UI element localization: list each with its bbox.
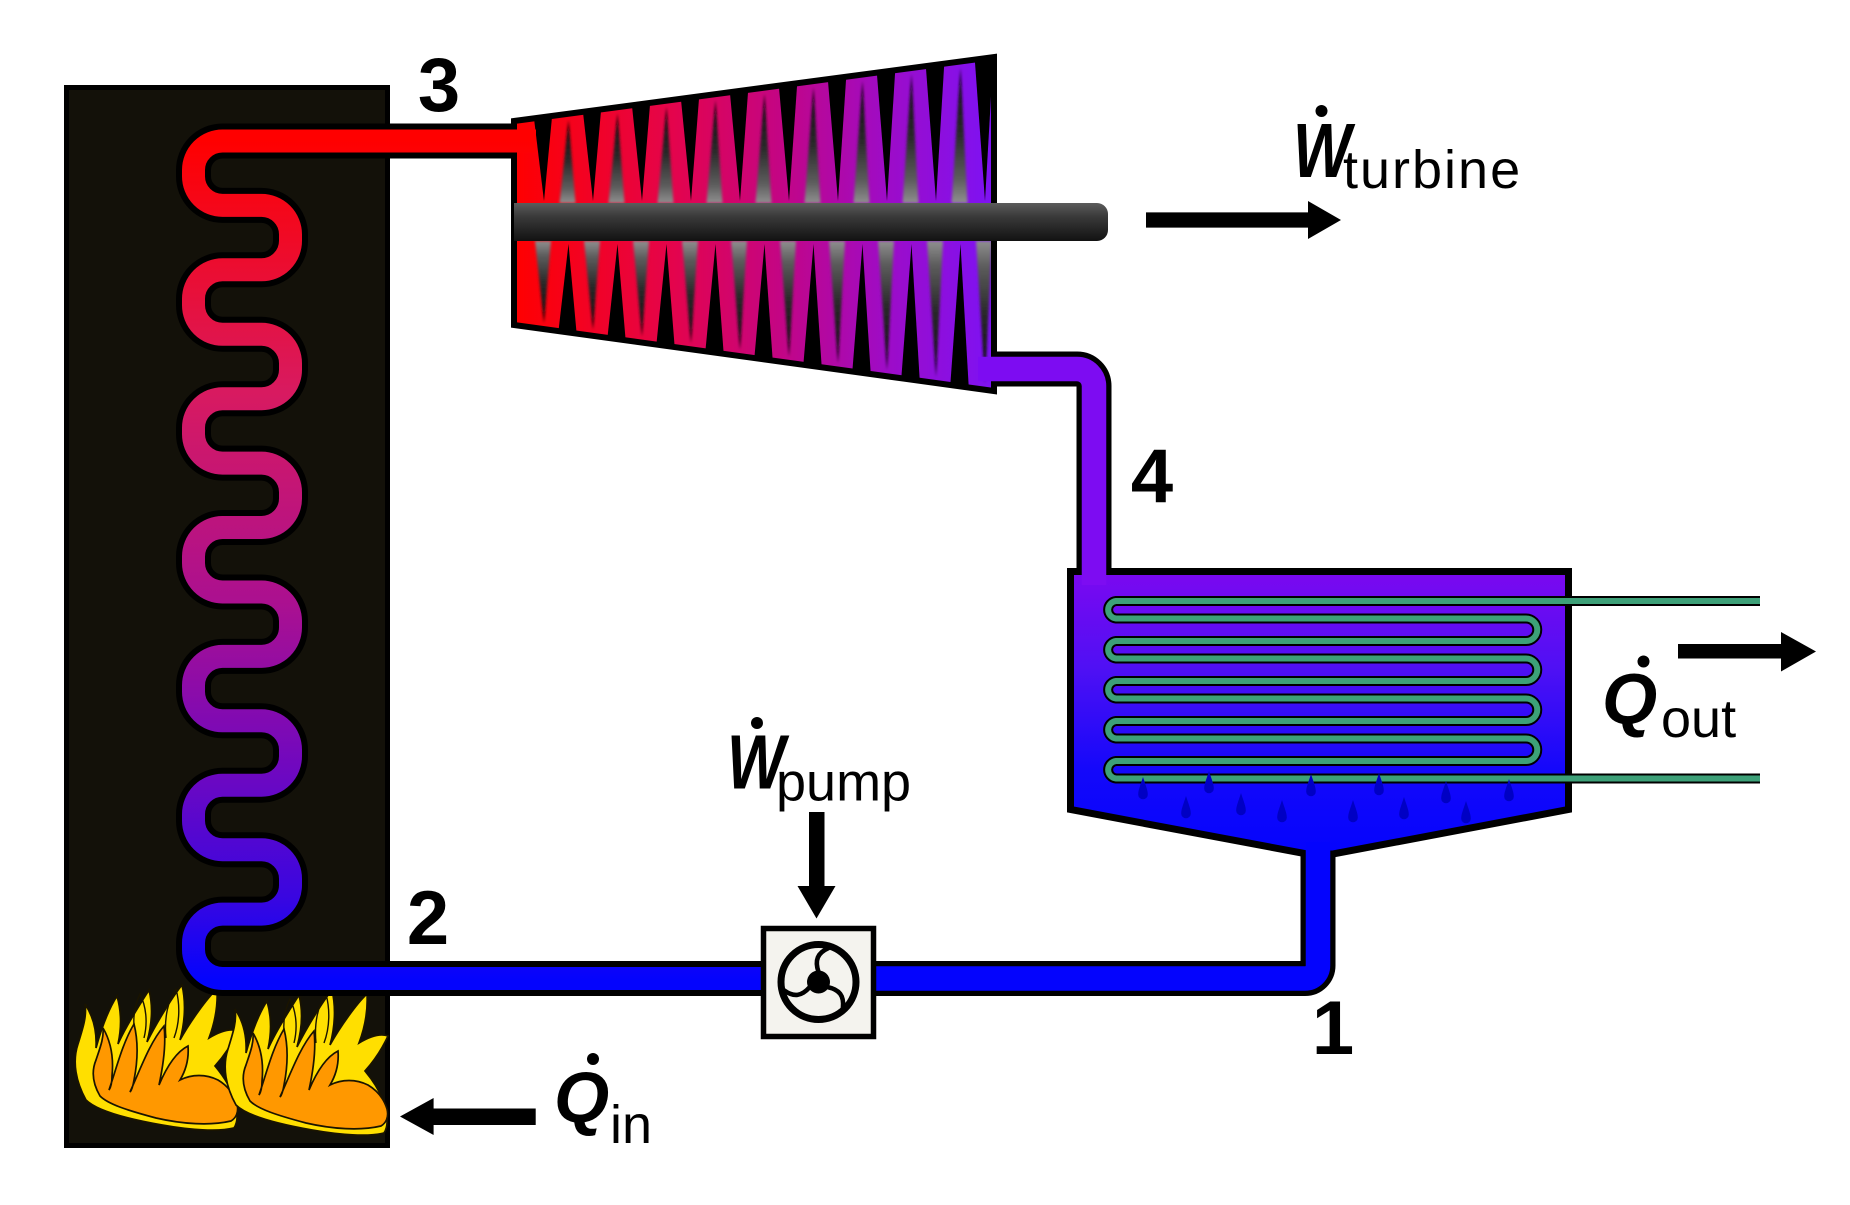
svg-text:pump: pump [776,753,911,813]
svg-text:4: 4 [1131,434,1173,519]
turbine body [514,57,994,391]
pipe 4 outline (turbine to condenser) [978,369,1094,585]
W turbine arrow [1146,201,1341,239]
flames left cluster [75,985,238,1130]
condenser body [1071,572,1569,855]
pump box [764,929,874,1037]
boiler serpentine pipe outline (also pipes 3 and 2) [194,141,861,979]
svg-text:2: 2 [407,876,449,961]
svg-text:in: in [610,1095,652,1155]
flames right cluster [225,990,388,1135]
W pump arrow [798,812,836,919]
pipe 1 colour [770,842,1318,979]
Q in arrow [400,1098,536,1135]
svg-text:turbine: turbine [1343,140,1522,200]
svg-text:3: 3 [418,43,460,128]
svg-text:1: 1 [1312,986,1354,1071]
svg-text:Q: Q [554,1059,609,1138]
condenser cooling coil [1108,601,1760,779]
svg-text:Q: Q [1602,661,1657,740]
pipe 4 colour [978,369,1094,585]
pump impeller [781,945,856,1020]
boiler/furnace box [67,88,388,1146]
pipe 1 outline (condenser drain to pump) [770,842,1318,979]
boiler serpentine pipe colour [194,141,861,979]
condensate droplets [1138,771,1514,823]
turbine blades [534,53,994,392]
turbine shaft [514,203,1108,241]
Q out arrow [1678,632,1816,672]
svg-text:out: out [1661,689,1736,749]
